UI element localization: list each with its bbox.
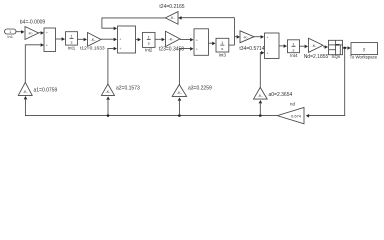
node bus tap a0 bbox=[259, 115, 261, 117]
svg-text:SQs: SQs bbox=[332, 54, 341, 59]
svg-text:+: + bbox=[120, 47, 122, 51]
wire S3 to Int3 bbox=[209, 42, 216, 46]
gain t24 (top, points left) bbox=[159, 4, 184, 24]
integrator Int3 bbox=[216, 38, 229, 57]
gain a2 (points up) bbox=[101, 84, 140, 95]
svg-text:-K-: -K- bbox=[312, 44, 318, 48]
svg-text:-K-: -K- bbox=[91, 38, 97, 42]
svg-text:s: s bbox=[293, 47, 295, 52]
svg-text:1: 1 bbox=[221, 40, 224, 45]
wire Int4 to Nd bbox=[300, 45, 309, 49]
wire top loop horizontal bbox=[178, 16, 234, 20]
svg-text:1: 1 bbox=[292, 41, 295, 46]
gain Nd bbox=[304, 38, 329, 60]
svg-text:Int4: Int4 bbox=[290, 53, 298, 58]
gain a0 (points up) bbox=[254, 87, 293, 99]
wire S1 to Int1 bbox=[56, 37, 66, 41]
svg-text:+: + bbox=[196, 38, 198, 42]
wire a1 up to S1 bbox=[25, 43, 44, 82]
svg-text:-K-: -K- bbox=[105, 90, 111, 94]
sum S4 bbox=[265, 33, 280, 59]
gain t34 bbox=[239, 31, 264, 52]
integrator Int1 bbox=[66, 32, 78, 51]
svg-text:b4=-0.0009: b4=-0.0009 bbox=[20, 20, 46, 26]
wire a0 up to S4 bbox=[260, 51, 264, 87]
svg-text:+: + bbox=[196, 47, 198, 51]
sign block SQs bbox=[329, 40, 343, 59]
wire SQs to To Workspace bbox=[343, 46, 351, 50]
svg-text:+: + bbox=[46, 43, 48, 47]
svg-text:a3=0.2259: a3=0.2259 bbox=[188, 86, 212, 92]
wire t23 to sum S3 bbox=[180, 38, 194, 42]
svg-text:0.674: 0.674 bbox=[291, 113, 302, 118]
gain nd (points left) bbox=[277, 102, 304, 124]
node bus tap a3 bbox=[178, 115, 180, 117]
svg-text:t23=0.3458: t23=0.3458 bbox=[159, 46, 184, 52]
wire output feedback drop bbox=[306, 48, 345, 118]
To Workspace block bbox=[350, 43, 378, 60]
wire bus to a0 bbox=[259, 100, 263, 116]
svg-text:s: s bbox=[221, 46, 223, 51]
gain a3 (points up) bbox=[172, 85, 212, 97]
wire S2 to Int2 bbox=[136, 38, 142, 42]
svg-text:t12=0.1633: t12=0.1633 bbox=[80, 45, 105, 51]
svg-text:-K-: -K- bbox=[177, 91, 183, 95]
wire Int3 out to tap node bbox=[229, 44, 235, 46]
svg-text:-K-: -K- bbox=[169, 38, 175, 42]
svg-text:Int3: Int3 bbox=[219, 52, 227, 57]
wire feedback bus bbox=[24, 96, 278, 116]
svg-text:To Workspace: To Workspace bbox=[350, 54, 378, 59]
svg-text:-: - bbox=[120, 27, 121, 31]
gain t23 bbox=[159, 31, 184, 52]
svg-text:-K-: -K- bbox=[258, 94, 264, 98]
integrator Int4 bbox=[288, 40, 300, 58]
svg-text:y: y bbox=[363, 47, 366, 52]
svg-text:+: + bbox=[120, 38, 122, 42]
svg-text:-K-: -K- bbox=[23, 90, 29, 94]
svg-text:-K-: -K- bbox=[170, 16, 176, 20]
node bus tap a2 bbox=[107, 115, 109, 117]
integrator Int2 bbox=[143, 32, 156, 52]
svg-text:a1=0.0759: a1=0.0759 bbox=[34, 87, 58, 93]
wire bus to a2 bbox=[106, 96, 110, 115]
svg-text:nd: nd bbox=[290, 102, 295, 107]
wire t24 output to sum S2 top input bbox=[102, 18, 165, 30]
svg-text:-K-: -K- bbox=[243, 35, 249, 39]
wire a2 up to S2 bbox=[108, 47, 117, 84]
wire a3 up to S3 bbox=[179, 47, 193, 85]
wire t12 to sum S2 bbox=[101, 38, 117, 42]
svg-text:Int1: Int1 bbox=[68, 46, 76, 51]
gain t12 bbox=[80, 33, 105, 52]
wire tap branch to t34 bbox=[235, 35, 241, 39]
node output junction bbox=[344, 47, 346, 49]
svg-text:a2=0.1573: a2=0.1573 bbox=[116, 86, 140, 92]
svg-text:Nd=2.1855: Nd=2.1855 bbox=[304, 54, 329, 60]
svg-text:1: 1 bbox=[70, 33, 73, 38]
wire tap riser up to top loop bbox=[234, 18, 236, 45]
wire Int1 to t12 bbox=[78, 38, 88, 42]
gain a1 (points up) bbox=[18, 82, 57, 95]
wire In1 to b4 bbox=[16, 30, 25, 34]
svg-text:+: + bbox=[267, 51, 269, 55]
svg-text:1: 1 bbox=[148, 34, 151, 39]
svg-text:s: s bbox=[71, 39, 73, 44]
inport In1 bbox=[5, 29, 17, 39]
sum S2 bbox=[118, 26, 136, 53]
svg-text:a0=2.3654: a0=2.3654 bbox=[269, 92, 293, 98]
wire t34 to sum S4 bbox=[254, 35, 264, 39]
svg-text:Int2: Int2 bbox=[145, 47, 153, 52]
svg-text:s: s bbox=[148, 41, 150, 46]
svg-text:+: + bbox=[46, 31, 48, 35]
svg-text:t24=0.2165: t24=0.2165 bbox=[159, 4, 184, 10]
gain b4 bbox=[20, 20, 46, 40]
svg-text:-K-: -K- bbox=[28, 32, 34, 36]
svg-text:+: + bbox=[267, 36, 269, 40]
sum S3 bbox=[194, 29, 209, 56]
wire Int2 to t23 bbox=[155, 38, 165, 42]
wire b4 to sum S1 bbox=[39, 31, 45, 35]
wire S4 to Int4 bbox=[279, 44, 287, 48]
wire bus to a3 bbox=[178, 97, 182, 115]
sum S1 bbox=[44, 28, 56, 52]
svg-text:t34=0.5714: t34=0.5714 bbox=[239, 46, 264, 52]
wire Nd to sign block bbox=[323, 45, 328, 49]
svg-text:In1: In1 bbox=[7, 34, 13, 39]
